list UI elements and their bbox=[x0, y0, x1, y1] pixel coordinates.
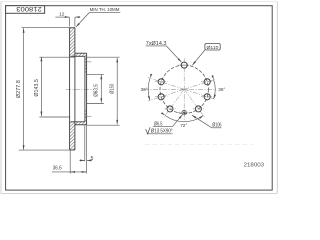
lug hole D bbox=[155, 94, 167, 100]
svg-text:Ø277.8: Ø277.8 bbox=[16, 80, 22, 98]
dim Ø150 bbox=[87, 57, 120, 125]
radial centerline to hole H bbox=[163, 89, 184, 118]
dim 12 lines bbox=[55, 17, 80, 26]
dim 5 bbox=[79, 125, 91, 173]
note underline and leader bbox=[76, 12, 120, 27]
page edge shadow lines bbox=[1, 2, 277, 194]
hat band bottom outer edge bbox=[75, 124, 87, 126]
svg-text:36°: 36° bbox=[141, 87, 148, 92]
dim 72 deg bottom arc bbox=[165, 116, 203, 129]
radial centerline to hole E bbox=[184, 89, 215, 99]
bolt circle Ø110 dashed bbox=[160, 65, 208, 113]
svg-text:Ø150: Ø150 bbox=[110, 84, 116, 94]
svg-text:36°: 36° bbox=[218, 87, 225, 92]
hatch band top bbox=[75, 53, 87, 56]
radial centerline to hole I bbox=[184, 89, 205, 118]
svg-text:12: 12 bbox=[59, 12, 65, 18]
drawing border frame bbox=[6, 6, 273, 190]
hatch wall top bbox=[85, 56, 87, 72]
dim Ø63.5 bbox=[87, 74, 104, 103]
svg-text:5: 5 bbox=[91, 156, 94, 162]
hat band top outer edge bbox=[75, 52, 87, 54]
dim 36.6 bbox=[52, 151, 87, 174]
hatch rim top bbox=[70, 28, 75, 57]
lug hole C bbox=[201, 79, 213, 85]
lug hole A top bbox=[178, 62, 191, 68]
radial centerline to hole D bbox=[148, 89, 184, 101]
hub wall right face bbox=[86, 53, 88, 125]
lug hole B bbox=[155, 79, 167, 85]
svg-text:218003: 218003 bbox=[16, 5, 42, 12]
lug hole I bbox=[193, 106, 204, 112]
section centerline bbox=[66, 88, 94, 90]
rim bottom edge bbox=[70, 149, 75, 151]
svg-text:7xØ14.3: 7xØ14.3 bbox=[146, 41, 167, 47]
svg-text:36.6: 36.6 bbox=[53, 166, 62, 172]
hatch band bottom bbox=[75, 122, 87, 125]
radial centerline to hole B bbox=[148, 78, 184, 90]
disc outer face bbox=[69, 28, 71, 150]
horizontal centerline bbox=[144, 88, 215, 90]
title box bbox=[6, 5, 45, 13]
rim top edge bbox=[70, 27, 75, 29]
hat band top inner edge bbox=[70, 55, 85, 57]
svg-text:MIN TH. 10MM: MIN TH. 10MM bbox=[90, 7, 120, 12]
countersunk screw hole J bbox=[177, 110, 191, 114]
hub wall left face bbox=[84, 56, 86, 122]
dim Ø277.8 bbox=[19, 28, 70, 150]
hat band bottom inner edge bbox=[70, 121, 85, 123]
radial centerline to hole C bbox=[184, 79, 215, 89]
faint fold line bbox=[145, 143, 253, 145]
dim Ø143.5 bbox=[39, 57, 74, 117]
hatch wall bottom bbox=[85, 109, 87, 122]
label Ø6.5 countersink bbox=[146, 115, 183, 135]
svg-text:218003: 218003 bbox=[244, 162, 265, 168]
vertical centerline bbox=[183, 58, 185, 120]
label Ø106 bbox=[192, 115, 222, 128]
svg-text:Ø143.5: Ø143.5 bbox=[34, 79, 40, 96]
hatch rim bottom bbox=[70, 122, 75, 150]
disc inner face bbox=[74, 28, 76, 150]
dim 36 deg left arc bbox=[141, 78, 150, 100]
lug hole E bbox=[201, 94, 213, 100]
label Ø110 boxed bbox=[192, 44, 220, 66]
svg-text:Ø110: Ø110 bbox=[207, 45, 219, 51]
dim 36 deg right arc bbox=[214, 80, 226, 99]
lug hole H bbox=[164, 106, 175, 112]
svg-text:72°: 72° bbox=[180, 123, 187, 128]
label 7xØ14.3 bbox=[146, 41, 182, 62]
svg-text:Ø63.5: Ø63.5 bbox=[94, 84, 100, 97]
lug hole edges in hub wall bbox=[85, 62, 91, 117]
